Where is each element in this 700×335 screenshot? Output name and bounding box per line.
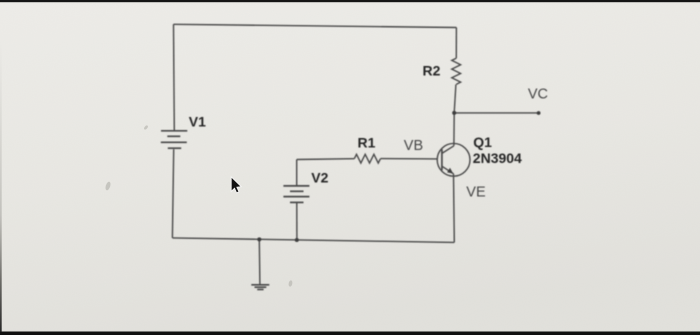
faint smudges [105, 125, 293, 287]
svg-text:VB: VB [404, 138, 423, 154]
resistor R1 [354, 154, 380, 163]
wire: R1 to base [381, 158, 438, 160]
junction dot: VC probe end [537, 111, 541, 115]
wire: R2 top lead [455, 28, 457, 59]
wire: top horizontal [174, 24, 457, 27]
battery V2 [283, 186, 309, 203]
wire: left vertical upper to V1 [173, 24, 176, 131]
svg-text:V1: V1 [189, 113, 206, 129]
svg-text:2N3904: 2N3904 [473, 150, 522, 166]
svg-text:VC: VC [528, 86, 548, 102]
resistor R2 [452, 58, 461, 84]
wire: left vertical lower, V1 to bottom [172, 149, 173, 238]
junction dot: V2 bottom node [295, 238, 299, 242]
transistor Q1 emitter arrow [447, 168, 453, 174]
transistor Q1 emitter diagonal [442, 166, 454, 174]
battery V1 [161, 131, 188, 148]
svg-text:R1: R1 [358, 134, 376, 150]
svg-text:VE: VE [466, 184, 486, 200]
battery V2 stem bottom [296, 203, 298, 240]
battery V2 stem top [296, 160, 298, 186]
mouse cursor [231, 177, 241, 193]
top black bar [0, 0, 700, 2]
junction dot: collector VC node [452, 111, 456, 115]
svg-text:R2: R2 [423, 63, 441, 79]
ground stem [258, 239, 261, 284]
svg-text:V2: V2 [311, 170, 328, 186]
ground symbol [251, 285, 269, 290]
wire: VC horizontal [454, 112, 538, 114]
transistor Q1 circle [437, 143, 470, 176]
wire: collector lead up [453, 113, 455, 146]
bottom black bar [0, 332, 700, 335]
svg-text:Q1: Q1 [473, 134, 492, 150]
left edge dark strip [0, 40, 2, 332]
wire: R2 bottom lead [454, 85, 456, 113]
wire: bottom horizontal [172, 238, 454, 243]
transistor Q1 collector diagonal [442, 146, 454, 154]
junction dot: ground node [257, 237, 261, 241]
transistor Q1 base bar [441, 149, 443, 170]
wire: V2 to R1 [297, 158, 355, 161]
wire: emitter lead down [453, 174, 456, 243]
